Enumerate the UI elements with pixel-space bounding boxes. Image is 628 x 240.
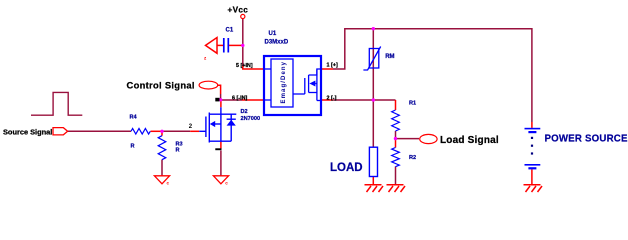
svg-text:Source Signal: Source Signal [3, 128, 52, 137]
svg-text:R4: R4 [130, 114, 138, 120]
svg-text:R: R [131, 144, 135, 150]
svg-text:6 [-IN]: 6 [-IN] [232, 95, 247, 101]
svg-text:+Vcc: +Vcc [228, 5, 249, 14]
svg-text:z: z [204, 56, 207, 61]
svg-text:C1: C1 [226, 28, 234, 34]
svg-text:2: 2 [189, 124, 193, 130]
svg-text:R1: R1 [409, 101, 416, 107]
svg-text:R2: R2 [409, 155, 416, 161]
svg-text:LOAD: LOAD [330, 162, 363, 174]
svg-text:Load Signal: Load Signal [440, 135, 499, 146]
svg-text:U1: U1 [269, 31, 277, 37]
svg-text:5 [+IN]: 5 [+IN] [236, 63, 253, 69]
svg-text:D3MxxD: D3MxxD [265, 40, 289, 46]
svg-text:R: R [176, 147, 180, 153]
svg-text:2N7000: 2N7000 [241, 116, 261, 122]
svg-text:c: c [167, 181, 170, 186]
svg-text:Control Signal: Control Signal [127, 80, 195, 91]
svg-text:POWER SOURCE: POWER SOURCE [545, 134, 628, 145]
svg-text:c: c [225, 181, 228, 186]
svg-text:D2: D2 [241, 109, 248, 115]
svg-text:RM: RM [385, 54, 394, 60]
svg-text:2 [-]: 2 [-] [327, 95, 337, 101]
svg-text:Emag/Deny: Emag/Deny [281, 61, 287, 104]
svg-text:1 [+]: 1 [+] [327, 63, 338, 69]
